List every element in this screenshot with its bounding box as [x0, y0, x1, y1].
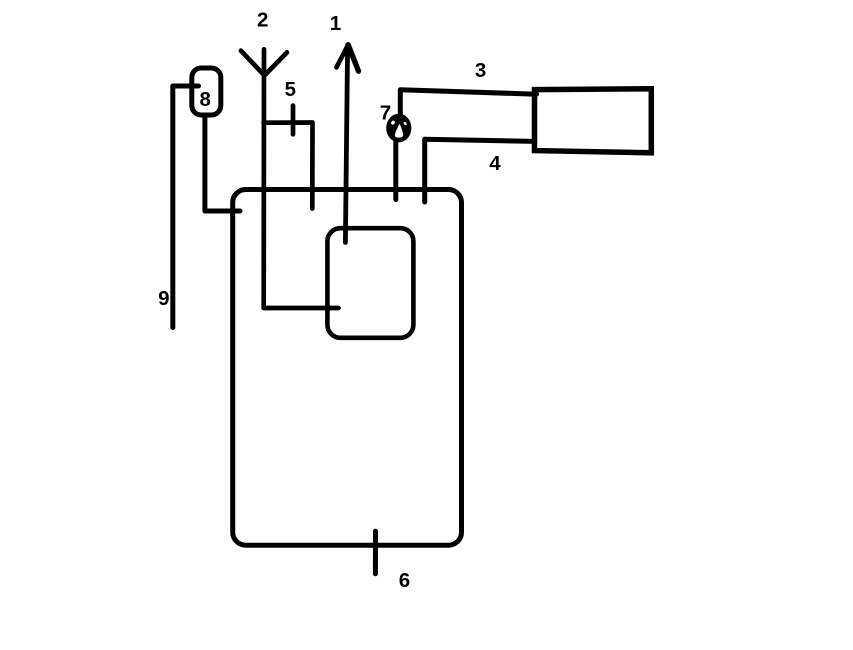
inner vessel (heat-exchanger box inside tank) [327, 228, 413, 338]
antenna 2 right branch [265, 52, 287, 75]
svg-text:4: 4 [489, 152, 501, 175]
pump 7 body (filled disc) [386, 114, 411, 143]
expansion vessel box 8 [192, 68, 221, 115]
svg-text:7: 7 [380, 102, 391, 125]
tank T (main vessel rounded rectangle) [233, 190, 462, 546]
svg-text:3: 3 [475, 59, 486, 82]
svg-text:6: 6 [399, 569, 410, 592]
boiler box B (right rectangle) [535, 89, 652, 153]
pipe 3 from pump top to boiler [400, 90, 536, 115]
svg-text:8: 8 [199, 88, 210, 111]
arrow 1 left barb [336, 45, 348, 67]
pipe 4 from boiler down into tank [425, 139, 535, 202]
arrow 1 shaft [345, 45, 347, 243]
arrow 1 right barb [348, 45, 358, 71]
svg-text:5: 5 [285, 78, 296, 101]
pipe 5 horizontal with down leg into tank [264, 123, 313, 209]
antenna 2 left branch [241, 51, 264, 75]
svg-text:1: 1 [330, 12, 341, 35]
svg-text:2: 2 [257, 8, 268, 31]
svg-text:9: 9 [158, 287, 169, 310]
wire from box 8 bottom into tank [205, 115, 240, 211]
wire 9 (from left side of box 8 down) [173, 86, 199, 328]
pipe 5 tick valve [291, 106, 296, 135]
pump 7 bottom pipe into tank [393, 140, 398, 200]
pump 7 white speck left [390, 120, 395, 125]
antenna 2 mast wire into inner vessel [264, 49, 339, 308]
pipe 6 stub at tank bottom [373, 531, 378, 574]
pump 7 triangle white interior [395, 124, 403, 138]
pump 7 white speck right [403, 121, 407, 126]
